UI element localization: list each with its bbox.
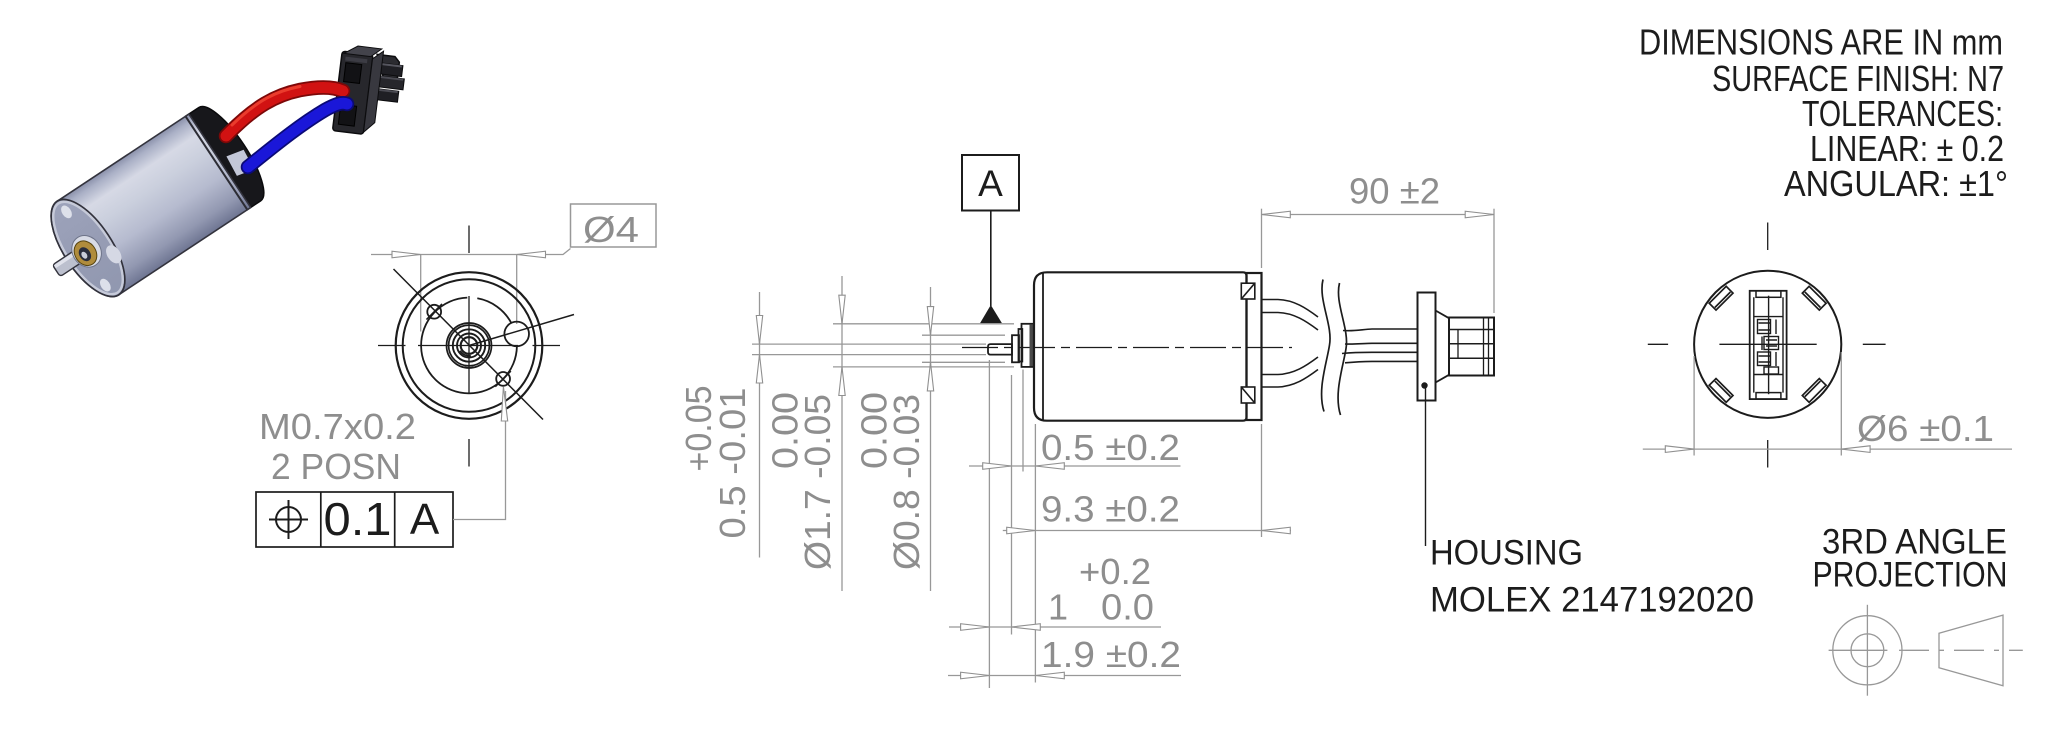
rear cap [1247, 273, 1262, 420]
rear crosshair vertical [1768, 296, 1770, 395]
svg-text:Ø0.8 -0.03: Ø0.8 -0.03 [886, 394, 927, 570]
slot top-left [1709, 286, 1733, 310]
svg-text:Ø1.7 -0.05: Ø1.7 -0.05 [797, 394, 838, 570]
svg-text:0.5 ±0.2: 0.5 ±0.2 [1041, 427, 1180, 468]
svg-text:A: A [978, 163, 1003, 204]
arrow right dia4 [517, 251, 546, 258]
dim line 1 +0.2/0.0 [949, 626, 1161, 628]
crosshair horizontal [418, 345, 518, 347]
slot bottom-left [1709, 379, 1733, 403]
cap tab bottom [1241, 387, 1255, 403]
rear black band and cap [186, 98, 275, 210]
blue wire [248, 103, 347, 167]
fcf leader [453, 391, 506, 520]
dim line dia6 [1643, 448, 2012, 450]
arrow dia6 left [1665, 446, 1694, 453]
ext line dia6 right [1840, 352, 1842, 456]
svg-text:0.1: 0.1 [324, 493, 392, 545]
ext line 90 left [1261, 209, 1263, 268]
datum A box [962, 155, 1019, 211]
hub partial arc [460, 351, 471, 356]
fcf divider 2 [394, 492, 396, 547]
rear connector dividers [1754, 317, 1783, 375]
svg-text:2 POSN: 2 POSN [271, 446, 401, 487]
dimension line dia4 [371, 249, 571, 255]
ext line v body face [1034, 424, 1036, 683]
arrows dia1.7 [839, 295, 845, 324]
shaft [52, 246, 88, 276]
ext line v collar face [1022, 370, 1024, 472]
ext line shaft08 bottom [922, 361, 1005, 363]
crimp ribs [1449, 330, 1494, 359]
front face [37, 188, 139, 308]
bolt circle arc large [421, 298, 517, 394]
break curve left [1322, 280, 1330, 412]
symbol vertical centerline [1866, 605, 1868, 696]
svg-text:0.5 -0.01: 0.5 -0.01 [712, 388, 753, 539]
vertical dim line dia1.7 [841, 276, 843, 591]
arrow 90 left [1262, 211, 1291, 218]
slot top-right [1802, 286, 1826, 310]
centerline vertical bottom [1767, 440, 1769, 468]
svg-text:DIMENSIONS ARE IN mm: DIMENSIONS ARE IN mm [1639, 21, 2003, 62]
vertical dim line 0.5 tol [759, 292, 761, 558]
rear outer circle [1694, 271, 1841, 418]
svg-text:HOUSING: HOUSING [1430, 534, 1583, 573]
leader housing [1425, 388, 1427, 546]
screw hole lower-right [496, 372, 510, 386]
svg-text:MOLEX 2147192020: MOLEX 2147192020 [1430, 581, 1754, 620]
body inner lip line [1042, 273, 1044, 420]
centerline horizontal left [378, 345, 406, 347]
centerline horizontal right [1863, 343, 1886, 345]
boss rect [1019, 329, 1023, 362]
face screw holes [59, 204, 74, 221]
bolt circle arc top right [477, 298, 511, 323]
line through large hole [469, 315, 574, 346]
svg-text:1.9 ±0.2: 1.9 ±0.2 [1041, 634, 1181, 675]
dim line 9.3+-0.2 [1003, 530, 1291, 532]
extension line left of dia4 [420, 255, 422, 332]
rear crosshair horizontal [1719, 343, 1816, 345]
collar dark strip [1030, 325, 1034, 367]
symbol inner circle [1851, 634, 1884, 667]
svg-text:Ø4: Ø4 [583, 209, 639, 250]
bearing and gold ring [66, 230, 108, 273]
rear connector outer rect [1750, 291, 1787, 399]
ext line v tip [988, 360, 990, 688]
vertical dim line dia0.8 [930, 287, 932, 591]
crimp teeth [1458, 318, 1489, 376]
ext line shaft08 top [922, 334, 1005, 336]
svg-text:Ø6 ±0.1: Ø6 ±0.1 [1857, 408, 1994, 449]
large hole right [504, 322, 529, 347]
rear connector bottom notch [1756, 393, 1781, 400]
shaft tip rect [988, 344, 1012, 355]
svg-text:1: 1 [1048, 587, 1068, 628]
collar rect [1022, 324, 1035, 367]
ext line datum top (collar top) [833, 323, 1014, 325]
outer circle [396, 272, 543, 419]
rear connector terminal details [1758, 320, 1779, 375]
motor body [37, 114, 251, 308]
cap tab top [1241, 283, 1255, 299]
hub circle 4 [457, 334, 481, 358]
extension line right of dia4 [516, 255, 518, 325]
fcf position symbol [269, 500, 308, 539]
arrows dia0.8 [927, 307, 933, 336]
connector housing [333, 44, 408, 138]
wire top outline [1262, 300, 1418, 345]
hub circle 3 [453, 329, 485, 361]
hub circle 2 [449, 325, 490, 366]
hub circle 5 [461, 337, 478, 354]
wire terminal boots [184, 107, 217, 136]
rear connector inner verticals [1754, 297, 1783, 392]
svg-text:ANGULAR: ±1°: ANGULAR: ±1° [1784, 163, 2008, 204]
fcf leader arrow [501, 387, 507, 422]
arrow left dia4 [392, 251, 421, 258]
screw hole upper-left [427, 305, 441, 319]
motor cylinder [25, 98, 275, 316]
centerline vertical bottom [468, 439, 470, 467]
ext line tip top [752, 343, 986, 345]
crosshair vertical [468, 296, 470, 394]
rear connector top notch [1756, 291, 1781, 298]
arrows 0.5 tol [756, 316, 762, 345]
ext line tip bottom [752, 354, 986, 356]
svg-text:90 ±2: 90 ±2 [1349, 171, 1440, 212]
ext line dia6 left [1693, 356, 1695, 456]
symbol dash-dot extension [1899, 649, 2023, 651]
center axis dash-dot line [962, 347, 1292, 349]
hub circle 1 [447, 323, 492, 368]
dim line 90 [1262, 214, 1495, 216]
shaft 0.8 rect [1012, 335, 1019, 362]
ext line 90 right [1493, 209, 1495, 313]
dim line 0.5+-0.2 [969, 465, 1181, 467]
arrow 90 right [1465, 211, 1494, 218]
ext line v body back [1261, 424, 1263, 537]
svg-text:PROJECTION: PROJECTION [1813, 556, 2008, 595]
svg-text:0.0: 0.0 [1101, 587, 1154, 628]
diagonal line through screws [394, 269, 544, 420]
motor body outline [1034, 272, 1247, 420]
svg-text:A: A [410, 495, 440, 544]
face vent hole [103, 242, 125, 266]
symbol cone [1939, 615, 2003, 686]
inner circle [403, 279, 536, 412]
band notch [225, 146, 256, 179]
connector main body [333, 51, 374, 134]
slot bottom-right [1802, 379, 1826, 403]
arrow dia6 right [1841, 446, 1870, 453]
centerline horizontal right [533, 345, 561, 347]
plate dot [1421, 382, 1427, 388]
symbol outer circle [1833, 616, 1902, 685]
symbol horizontal centerline [1829, 649, 1888, 651]
svg-text:9.3 ±0.2: 9.3 ±0.2 [1041, 489, 1180, 530]
ext line v shaft step [1011, 375, 1013, 635]
red wire [226, 88, 343, 137]
dim line 1.9+-0.2 [948, 675, 1181, 677]
datum filled triangle [980, 305, 1002, 323]
wire bottom outline [1262, 352, 1418, 387]
svg-text:M0.7x0.2: M0.7x0.2 [259, 406, 416, 447]
datum leader [990, 211, 992, 307]
feature control frame box [256, 492, 453, 547]
connector plate [1418, 293, 1436, 401]
centerline vertical top [468, 226, 470, 254]
dia4 label box [571, 204, 657, 247]
crimp block [1449, 318, 1494, 376]
transition lines [1436, 311, 1450, 383]
centerline vertical top [1767, 223, 1769, 251]
centerline horizontal left [1648, 343, 1668, 345]
ext line collar bottom [833, 366, 1014, 368]
fcf divider 1 [320, 492, 322, 547]
break curve right [1338, 283, 1346, 415]
